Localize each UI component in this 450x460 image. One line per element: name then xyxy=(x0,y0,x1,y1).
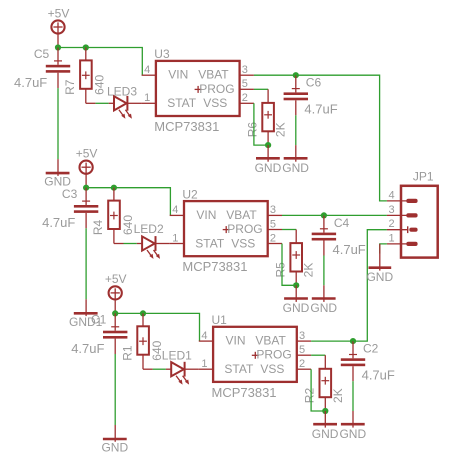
svg-text:VSS: VSS xyxy=(203,96,227,110)
wire C2 to ground xyxy=(352,381,354,411)
ground GND xyxy=(284,145,308,162)
svg-text:VSS: VSS xyxy=(231,236,255,250)
wire C6 to ground xyxy=(295,115,297,145)
IC U3 MCP73831 xyxy=(142,61,254,116)
svg-text:3: 3 xyxy=(299,330,305,342)
svg-text:+5V: +5V xyxy=(48,6,70,20)
svg-text:MCP73831: MCP73831 xyxy=(154,119,219,134)
svg-text:5: 5 xyxy=(242,78,248,90)
svg-text:U2: U2 xyxy=(182,187,198,201)
junction xyxy=(321,212,327,218)
pin 3 (JP1) xyxy=(387,214,409,216)
wire R4 to LED2 xyxy=(124,243,137,245)
svg-text:VIN: VIN xyxy=(168,68,188,82)
svg-text:3: 3 xyxy=(242,64,248,76)
ground GND (JP1) xyxy=(369,244,392,271)
svg-text:VBAT: VBAT xyxy=(255,334,286,348)
wire U1 VBAT to node xyxy=(311,340,353,342)
ground GND xyxy=(256,145,280,162)
pin 4 (JP1) xyxy=(387,200,409,202)
svg-text:LED2: LED2 xyxy=(134,222,164,236)
svg-text:MCP73831: MCP73831 xyxy=(182,259,247,274)
svg-text:3: 3 xyxy=(270,204,276,216)
svg-text:1: 1 xyxy=(389,232,395,244)
wire U2 VSS to ground node xyxy=(282,244,296,286)
svg-text:GND: GND xyxy=(101,441,128,455)
capacitor C6 xyxy=(284,75,308,115)
svg-text:LED1: LED1 xyxy=(162,349,192,363)
svg-text:4: 4 xyxy=(389,189,395,201)
svg-text:GND: GND xyxy=(282,161,309,175)
svg-text:GND: GND xyxy=(310,301,337,315)
wire R7 to LED3 xyxy=(95,102,108,104)
junction xyxy=(140,310,146,316)
wire R1 to LED1 xyxy=(153,368,166,370)
svg-text:GND: GND xyxy=(255,161,282,175)
ground GND xyxy=(46,159,70,176)
wire U2 VBAT to node xyxy=(282,214,324,216)
junction xyxy=(112,310,118,316)
svg-text:640: 640 xyxy=(93,74,107,94)
svg-text:4: 4 xyxy=(201,330,207,342)
svg-text:2: 2 xyxy=(242,92,248,104)
svg-text:4.7uF: 4.7uF xyxy=(304,102,337,117)
junction xyxy=(83,44,89,50)
svg-text:C1: C1 xyxy=(91,313,107,327)
svg-text:STAT: STAT xyxy=(224,362,254,376)
svg-text:C6: C6 xyxy=(306,76,322,90)
svg-text:GND: GND xyxy=(283,301,310,315)
svg-text:2: 2 xyxy=(270,232,276,244)
wire U3 VBAT node to JP1 pin 4 xyxy=(296,75,387,201)
svg-text:PROG: PROG xyxy=(227,222,262,236)
pin 1 (JP1) xyxy=(387,243,409,245)
svg-text:PROG: PROG xyxy=(199,82,234,96)
junction xyxy=(111,185,117,191)
wire U3 PROG to R6 xyxy=(254,88,268,90)
IC U1 MCP73831 xyxy=(199,327,311,382)
svg-text:C4: C4 xyxy=(334,216,350,230)
svg-text:1: 1 xyxy=(144,92,150,104)
svg-text:4.7uF: 4.7uF xyxy=(71,341,104,356)
svg-text:R4: R4 xyxy=(91,219,105,235)
svg-text:2: 2 xyxy=(389,218,395,230)
svg-text:GND: GND xyxy=(339,427,366,441)
resistor R4 xyxy=(108,188,120,244)
svg-text:VBAT: VBAT xyxy=(226,208,257,222)
junction xyxy=(265,142,271,148)
capacitor C3 xyxy=(74,188,98,229)
svg-text:C3: C3 xyxy=(62,187,78,201)
svg-text:VIN: VIN xyxy=(196,208,216,222)
svg-text:VBAT: VBAT xyxy=(198,68,229,82)
svg-text:5: 5 xyxy=(270,218,276,230)
junction xyxy=(293,72,299,78)
svg-text:4.7uF: 4.7uF xyxy=(14,75,47,90)
svg-text:R2: R2 xyxy=(303,388,317,404)
junction xyxy=(350,338,356,344)
wire +5V rail to U3 VIN xyxy=(58,48,142,76)
ground GND xyxy=(284,285,308,302)
svg-text:R1: R1 xyxy=(120,345,134,361)
wire C4 to ground xyxy=(323,256,325,286)
ground GND xyxy=(312,285,336,302)
svg-text:R6: R6 xyxy=(245,122,259,138)
supply +5V (U1 rail) xyxy=(109,286,122,313)
wire +5V rail to U1 VIN xyxy=(115,313,199,341)
wire JP1 pin 1 to ground xyxy=(380,244,387,254)
IC U2 MCP73831 xyxy=(170,201,282,256)
svg-text:2: 2 xyxy=(299,358,305,370)
capacitor C5 xyxy=(46,48,70,89)
svg-text:JP1: JP1 xyxy=(413,170,434,184)
svg-text:R7: R7 xyxy=(63,79,77,95)
svg-text:4.7uF: 4.7uF xyxy=(42,215,75,230)
svg-text:MCP73831: MCP73831 xyxy=(212,385,277,400)
svg-text:5: 5 xyxy=(299,344,305,356)
LED LED1 xyxy=(143,362,199,385)
svg-text:STAT: STAT xyxy=(167,96,197,110)
svg-text:4.7uF: 4.7uF xyxy=(333,242,366,257)
wire U1 PROG to R2 xyxy=(311,354,325,356)
svg-text:4: 4 xyxy=(144,64,150,76)
connector JP1 xyxy=(401,186,438,258)
svg-text:2K: 2K xyxy=(331,388,345,403)
capacitor C1 xyxy=(103,313,127,354)
LED LED3 xyxy=(86,96,142,119)
wire U1 VBAT node to JP1 pin 2 xyxy=(353,230,387,341)
svg-text:VIN: VIN xyxy=(226,334,246,348)
resistor R7 xyxy=(80,48,92,104)
junction xyxy=(83,185,89,191)
wire U1 VSS to ground node xyxy=(311,369,325,411)
svg-text:+5V: +5V xyxy=(76,147,98,161)
svg-text:GND: GND xyxy=(366,270,393,284)
junction xyxy=(322,408,328,414)
wire U2 PROG to R5 xyxy=(282,229,296,231)
svg-text:U3: U3 xyxy=(154,47,170,61)
capacitor C4 xyxy=(312,215,336,255)
supply +5V (U3 rail) xyxy=(51,20,64,47)
junction xyxy=(293,282,299,288)
svg-text:PROG: PROG xyxy=(256,348,291,362)
wire C1 to ground xyxy=(114,354,116,425)
supply +5V (U2 rail) xyxy=(80,161,93,188)
wire C5 to ground xyxy=(57,88,59,159)
ground GND xyxy=(341,411,365,428)
svg-text:R5: R5 xyxy=(273,262,287,278)
wire C3 to ground xyxy=(85,228,87,299)
svg-text:STAT: STAT xyxy=(195,236,225,250)
ground GND1 xyxy=(74,299,98,316)
svg-text:4: 4 xyxy=(172,204,178,216)
wire +5V rail to U2 VIN xyxy=(86,188,170,216)
svg-text:LED3: LED3 xyxy=(107,84,137,98)
ground GND xyxy=(313,411,337,428)
svg-text:GND: GND xyxy=(312,427,339,441)
svg-text:C5: C5 xyxy=(34,47,50,61)
ground GND xyxy=(103,425,127,442)
junction xyxy=(55,44,61,50)
svg-text:U1: U1 xyxy=(212,313,228,327)
svg-text:3: 3 xyxy=(389,204,395,216)
wire U3 VBAT to node xyxy=(254,74,296,76)
capacitor C2 xyxy=(341,341,365,381)
resistor R2 xyxy=(320,355,332,411)
resistor R5 xyxy=(290,230,302,286)
svg-text:C2: C2 xyxy=(363,342,379,356)
resistor R6 xyxy=(262,89,274,145)
svg-text:1: 1 xyxy=(172,232,178,244)
svg-text:1: 1 xyxy=(201,358,207,370)
wire U3 VSS to ground node xyxy=(254,103,268,145)
svg-text:2K: 2K xyxy=(302,263,316,278)
svg-text:VSS: VSS xyxy=(260,362,284,376)
svg-text:2K: 2K xyxy=(274,122,288,137)
wire U2 VBAT node to JP1 pin 3 xyxy=(324,214,387,216)
resistor R1 xyxy=(137,313,149,369)
LED LED2 xyxy=(114,236,170,259)
svg-text:4.7uF: 4.7uF xyxy=(362,368,395,383)
pin 2 (JP1) xyxy=(387,229,409,231)
svg-text:+5V: +5V xyxy=(105,272,127,286)
